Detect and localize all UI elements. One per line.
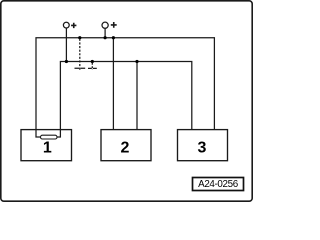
junction component 2 wire on upper bus: [112, 36, 115, 39]
terminal B+ 1: [63, 22, 76, 28]
svg-text:A24-0256: A24-0256: [198, 179, 239, 190]
wire terminal 2 to upper bus: [104, 29, 106, 38]
junction component 2 wire on lower bus: [135, 60, 138, 63]
junction ground lead on lower bus: [91, 60, 94, 63]
svg-text:2: 2: [121, 140, 130, 157]
junction terminal 1 wire on lower bus: [65, 60, 68, 63]
wire lower bus to components 1 and 3: [57, 62, 192, 138]
junction ground lead on upper bus: [78, 36, 81, 39]
component 2 box: [101, 130, 151, 161]
wire terminal 1 to lower bus: [65, 28, 67, 61]
svg-text:3: 3: [198, 140, 207, 157]
label A24-0256: [193, 178, 244, 191]
component 1 box: [21, 130, 72, 161]
fuse inside component 1: [41, 135, 58, 139]
ground G2 dashed lead and bar: [88, 63, 97, 70]
component 3 box: [178, 130, 228, 161]
svg-text:1: 1: [43, 140, 52, 157]
ground G1 dashed lead and bar: [75, 39, 86, 70]
wire upper bus to component 2 left pin: [112, 38, 114, 131]
wire upper bus to components 1 and 3: [36, 38, 214, 137]
terminal B+ 2: [102, 22, 117, 28]
junction terminal 2 wire on upper bus: [104, 36, 107, 39]
wire lower bus to component 2 right pin: [136, 62, 138, 131]
